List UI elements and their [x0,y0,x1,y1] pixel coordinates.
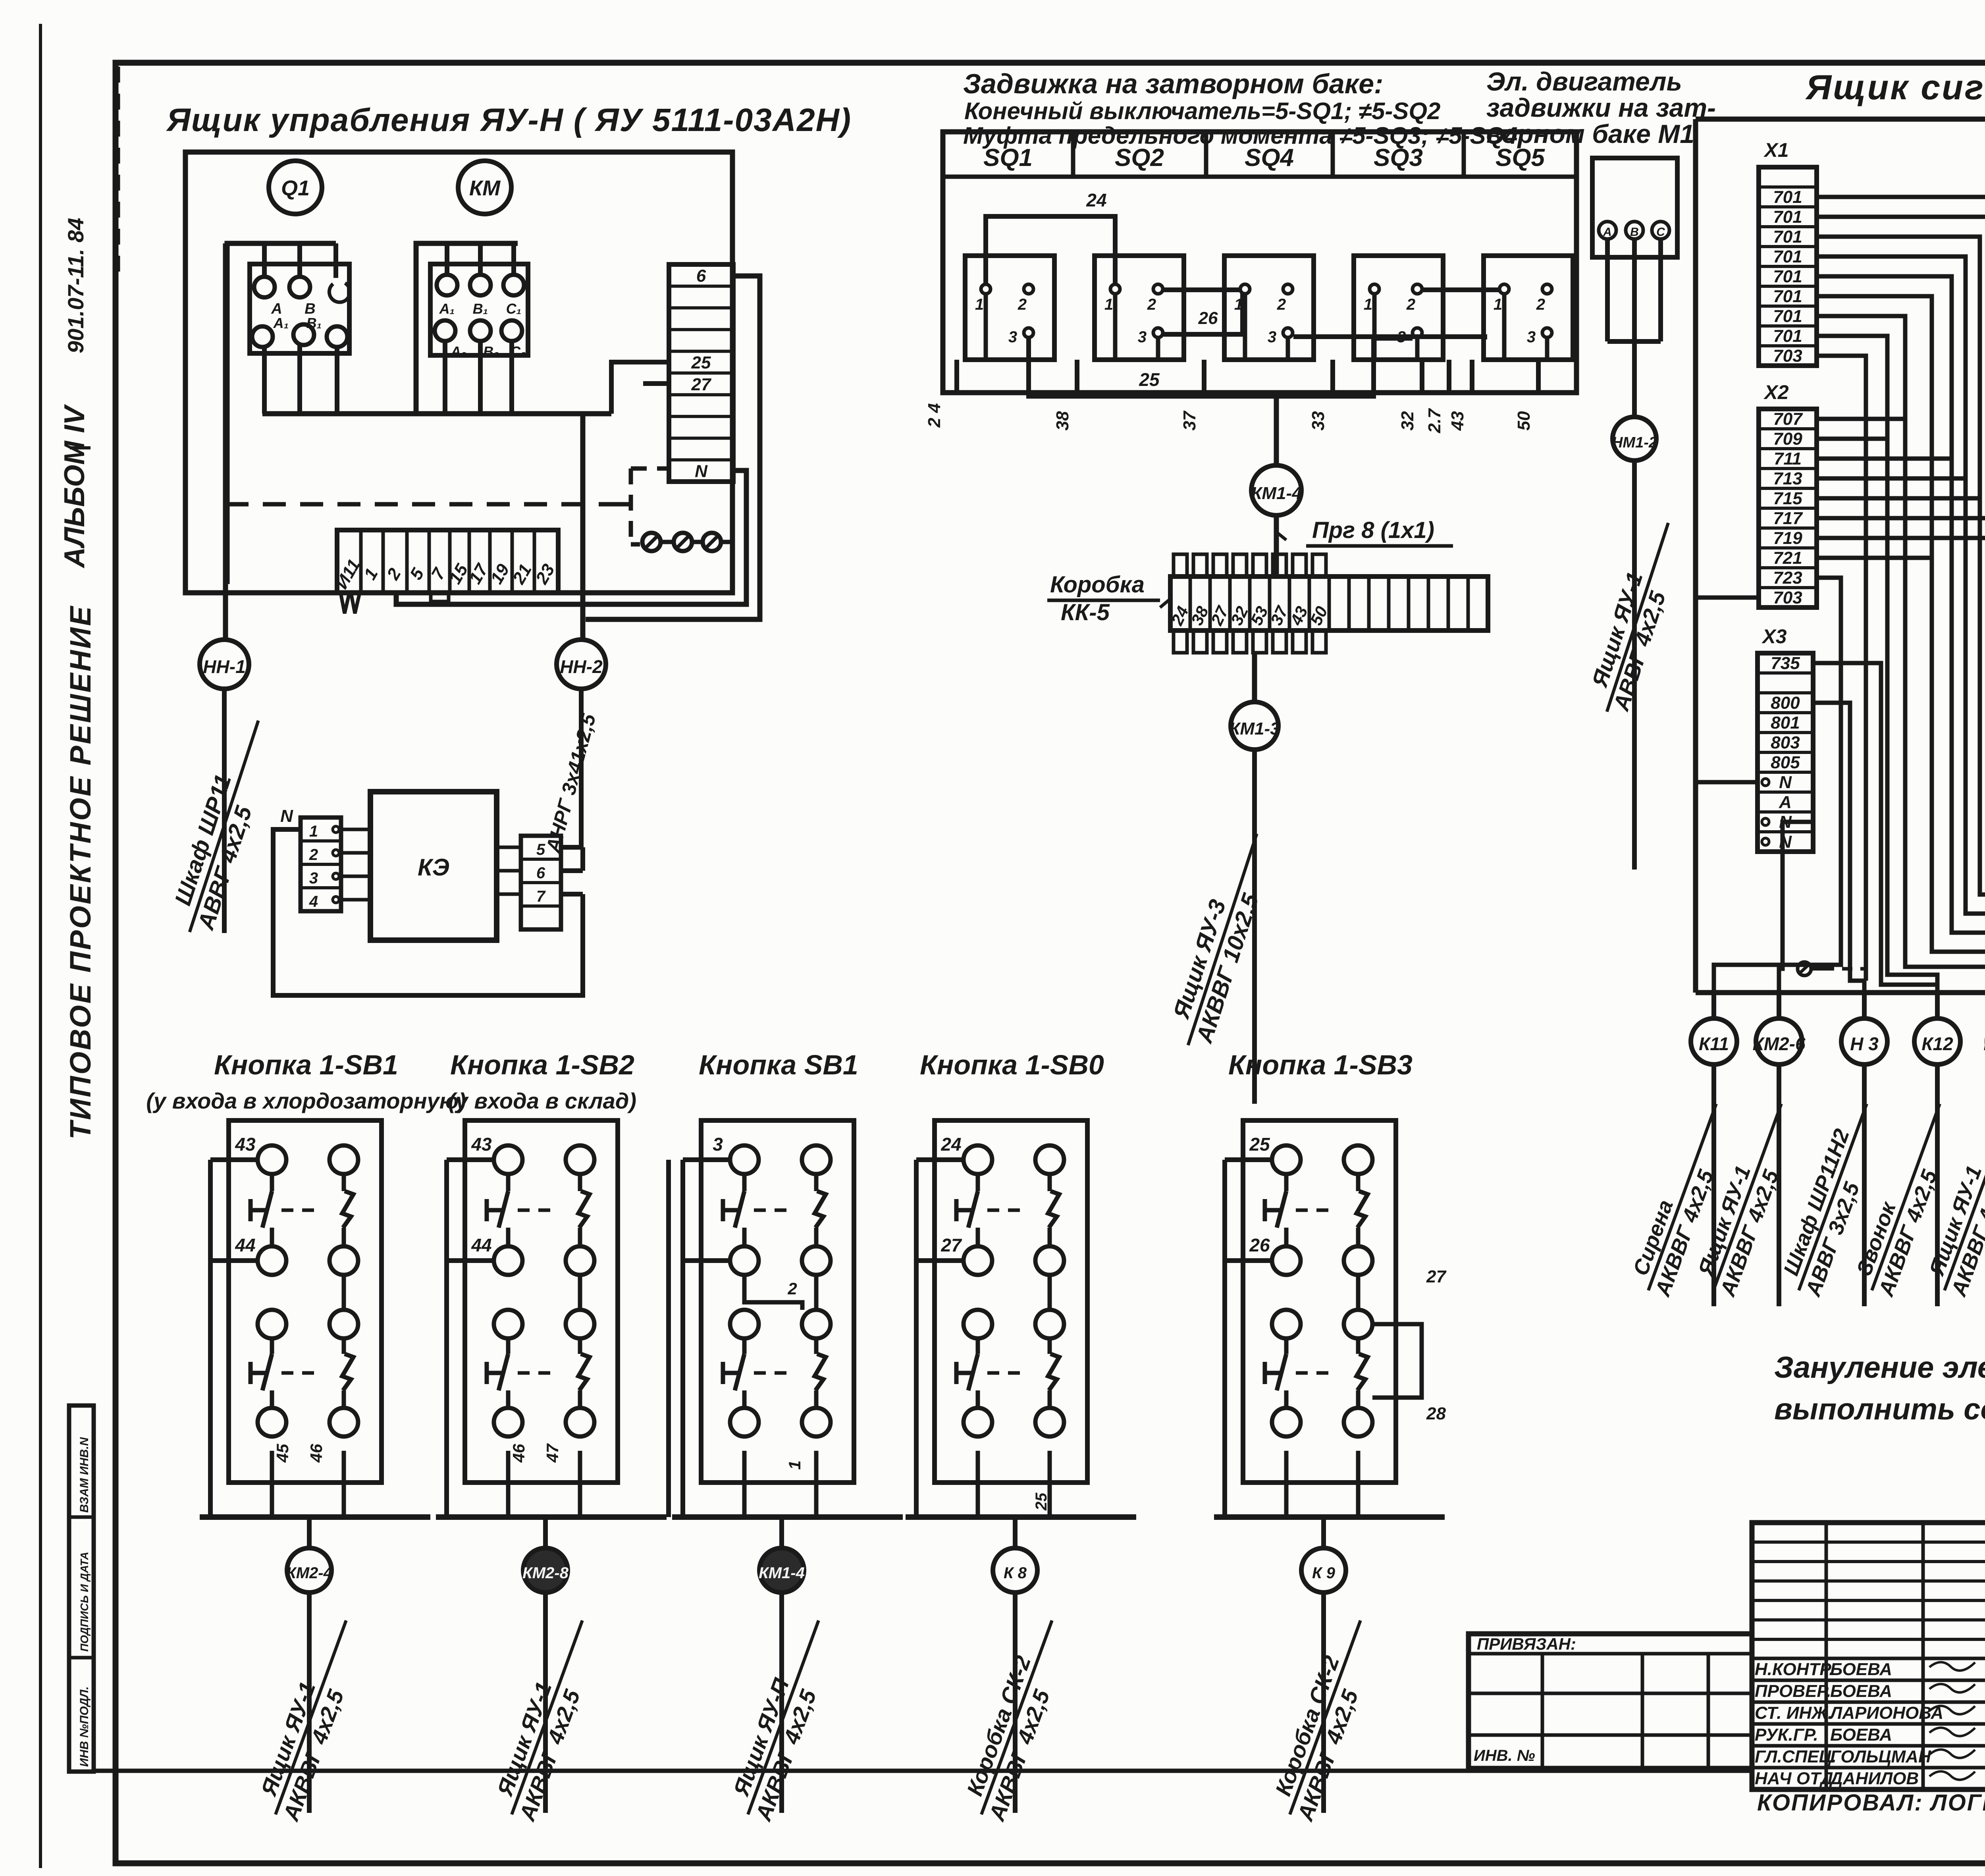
device circle &#1050; 9 [1321,1517,1326,1548]
button left feeder [210,1157,258,1162]
button bus [436,1514,667,1520]
SQ1 contact 2 [1024,284,1033,294]
wire X2 row 8 stub [1817,556,1932,560]
svg-text:2: 2 [1018,296,1027,313]
svg-text:ПРИВЯЗАН:: ПРИВЯЗАН: [1477,1635,1576,1653]
svg-text:А₁: А₁ [273,315,289,331]
bracket under strip [431,593,449,602]
svg-text:Конечный выключатель=5-SQ1; ≠5: Конечный выключатель=5-SQ1; ≠5-SQ2 [964,98,1440,124]
svg-text:Х1: Х1 [1763,139,1788,161]
switch SQ box 5 [1484,256,1573,360]
svg-text:РУК.ГР.: РУК.ГР. [1755,1725,1818,1745]
staff table grid [1752,1523,1985,1789]
wire X1 row 5 routing [1817,256,1985,993]
svg-text:25: 25 [1249,1134,1270,1155]
wire X2 row 4 stub [1817,476,1966,481]
svg-text:803: 803 [1771,733,1800,752]
SQ5 contact 3 [1542,328,1552,337]
svg-text:К 8: К 8 [1004,1564,1027,1582]
motor terminal A [1599,222,1616,239]
wire link sq2-sq4 top [1164,287,1239,292]
svg-text:3: 3 [1008,328,1017,346]
svg-text:2: 2 [787,1279,797,1298]
wire from row6 to right [586,276,760,619]
svg-text:43: 43 [235,1134,256,1155]
button left feeder [447,1157,494,1162]
svg-text:1: 1 [1364,296,1372,313]
device circle K11 [1711,993,1716,1018]
svg-text:Эл. двигатель: Эл. двигатель [1486,67,1682,96]
wire KM1-4 to strip [1274,515,1279,576]
wire X1 703 routing [1817,356,1866,981]
button left feeder [1225,1157,1272,1162]
svg-text:24: 24 [940,1134,961,1155]
svg-text:КМ1-4: КМ1-4 [759,1564,805,1582]
KE left terminal strip [301,817,341,911]
button block &#1050;&#1085;&#1086;&#1087;&#1082;&#1072; 1-SB1 [229,1120,382,1483]
svg-text:выполнить согласно ПУЭ гл 1-7: выполнить согласно ПУЭ гл 1-7-39. [1774,1392,1985,1426]
wire X2 row 2 stub [1817,437,1887,441]
svg-text:2: 2 [1147,296,1156,313]
svg-text:Кнопка SB1: Кнопка SB1 [699,1049,858,1080]
svg-text:Ящик упрабления ЯУ-Н ( ЯУ 511: Ящик упрабления ЯУ-Н ( ЯУ 5111-03А2Н) [166,102,852,138]
button contacts upper [494,1145,522,1174]
svg-text:Коробка: Коробка [1050,572,1145,598]
svg-text:735: 735 [1771,654,1800,673]
dashed link to N row [631,467,669,471]
svg-text:2: 2 [1277,296,1286,313]
svg-text:703: 703 [1773,346,1802,366]
device circle &#1050; 8 [1013,1517,1018,1548]
svg-text:КМ2-6: КМ2-6 [1983,1033,1985,1054]
wire step 2 [744,1275,802,1310]
SQ drop wires to collector [954,360,959,393]
svg-text:38: 38 [1053,411,1072,430]
svg-text:НАЧ ОТД: НАЧ ОТД [1755,1769,1833,1788]
box YaS [1696,117,1985,122]
box YaU-N [185,152,732,593]
svg-text:701: 701 [1773,267,1802,286]
svg-text:В₁: В₁ [306,315,322,331]
cable label NN-1 [162,712,283,941]
Q1 bottom wires to bus [262,347,267,414]
svg-text:КОПИРОВАЛ: ЛОГИНОВА: КОПИРОВАЛ: ЛОГИНОВА [1757,1790,1985,1816]
wire mid long link [1293,337,1485,339]
svg-text:45: 45 [273,1444,292,1463]
wire X1 row 4 routing [1817,237,1985,993]
leader line KK-5 [1160,598,1172,607]
lamp circle 1 [642,533,661,551]
cable label NM1-2 [1580,514,1692,719]
svg-text:719: 719 [1773,528,1802,548]
svg-text:В: В [1630,226,1639,239]
KE right terminal strip [521,836,561,929]
svg-text:АЛЬБОМ IV: АЛЬБОМ IV [59,404,91,569]
dashed control bus [225,502,613,507]
cable label [1689,1095,1806,1300]
svg-text:28: 28 [1426,1404,1446,1423]
button contacts upper [258,1145,286,1174]
svg-text:24: 24 [1086,190,1106,210]
button block &#1050;&#1085;&#1086;&#1087;&#1082;&#1072; 1-SB0 [935,1120,1087,1483]
svg-text:701: 701 [1773,326,1802,346]
svg-text:2: 2 [1406,296,1415,313]
lamp connecting wire [661,540,674,544]
svg-text:701: 701 [1773,307,1802,326]
svg-text:1: 1 [975,296,984,313]
svg-text:50: 50 [1514,411,1534,430]
wire X2 row 1 stub [1817,417,1905,421]
Q1 hat bus wire [227,243,336,584]
wire from rowN loop [396,470,746,604]
wire 25 long link [1029,338,1413,396]
Q1 terminals top row [254,277,275,297]
svg-text:Кнопка 1-SB0: Кнопка 1-SB0 [920,1049,1104,1080]
svg-text:БОЕВА: БОЕВА [1830,1725,1892,1745]
cable label [250,1611,372,1824]
svg-text:701: 701 [1773,287,1802,306]
svg-text:А: А [1779,792,1792,812]
KM contact block [430,264,528,355]
button tail wire [307,1593,312,1813]
svg-text:703: 703 [1773,588,1802,607]
cable label KM1-3 [1161,825,1282,1054]
button contacts upper [1272,1145,1301,1174]
wire N to KE [273,829,583,995]
device circle &#1050;&#1052;2-4 [307,1517,312,1548]
SQ5 contact 2 [1542,284,1552,294]
button block &#1050;&#1085;&#1086;&#1087;&#1082;&#1072; 1-SB2 [465,1120,618,1483]
wire KK-5 to KM1-3 [1252,653,1257,702]
svg-text:3: 3 [309,870,318,887]
svg-text:717: 717 [1773,509,1803,528]
svg-text:ГЛ.СПЕЦ.: ГЛ.СПЕЦ. [1755,1747,1837,1766]
SQ table header line [943,175,1576,179]
svg-text:КМ1-4: КМ1-4 [1251,484,1301,503]
svg-text:3: 3 [713,1134,723,1155]
SQ2 contact 1 [1110,284,1120,294]
device NM1-2 circle [1613,417,1656,461]
button contacts lower [1272,1310,1301,1338]
svg-text:КМ2-4: КМ2-4 [286,1564,332,1582]
svg-text:НН-2: НН-2 [560,656,603,677]
svg-text:47: 47 [543,1443,562,1463]
svg-text:В₂: В₂ [483,343,499,360]
cable label [723,1611,844,1824]
svg-text:SQ5: SQ5 [1495,144,1546,172]
KK-5 teeth top [1174,554,1187,576]
svg-text:721: 721 [1773,548,1802,568]
wire X3 735 routing [1813,663,1937,985]
svg-text:26: 26 [1198,308,1218,328]
svg-text:33: 33 [1309,411,1328,431]
svg-text:SQ4: SQ4 [1245,144,1294,172]
svg-text:SQ2: SQ2 [1115,144,1164,172]
Q1 contact block [250,264,349,353]
svg-text:Задвижка на затворном баке:: Задвижка на затворном баке: [963,68,1383,99]
svg-text:44: 44 [471,1235,491,1255]
cable label [1264,1611,1386,1824]
svg-text:2: 2 [309,846,318,864]
wire H3 drop [1862,981,1867,993]
svg-text:N: N [280,806,293,826]
device KM1-4 circle [1251,465,1301,515]
svg-text:46: 46 [307,1444,326,1463]
svg-text:2: 2 [1536,296,1545,313]
svg-text:3: 3 [1527,328,1536,346]
button bus [906,1514,1136,1520]
svg-text:25: 25 [1033,1492,1050,1511]
wire X1 row 8 routing [1817,316,1985,993]
wire motor to NM1-2 [1632,341,1637,417]
svg-text:715: 715 [1773,489,1802,508]
svg-text:Кнопка 1-SB2: Кнопка 1-SB2 [450,1049,634,1080]
svg-text:Кнопка 1-SB3: Кнопка 1-SB3 [1228,1049,1413,1080]
wire NN-1 drop [223,243,228,640]
left stamp column strip [69,1406,94,1772]
svg-text:27: 27 [1426,1267,1447,1286]
svg-text:К11: К11 [1699,1033,1729,1054]
svg-text:ИНВ. №: ИНВ. № [1474,1747,1535,1764]
svg-text:С: С [1656,226,1665,239]
svg-text:К 9: К 9 [1312,1564,1336,1582]
wire X3 N stub left [1696,780,1758,785]
switch SQ box 2 [1095,256,1184,360]
bottom secondary line [94,1769,1752,1773]
button contacts upper [964,1145,992,1174]
device NN-1 circle [200,640,249,689]
X3 open terminal circles [1762,779,1769,786]
button inner wires [342,1275,346,1310]
lamp circle 2 [674,533,692,551]
svg-text:Муфта предельного момента ≠5-S: Муфта предельного момента ≠5-SQ3; ≠5-SQ4… [963,122,1524,149]
svg-text:КЭ: КЭ [418,854,449,881]
switch SQ box 4 [1354,256,1443,360]
SQ2 contact 3 [1153,328,1163,337]
wire X3 N routing to KM2-6 [1779,822,1813,993]
button tail wire [1013,1593,1018,1813]
svg-text:А₂: А₂ [450,343,466,360]
KE right stubs [497,846,521,849]
svg-text:Ящик сигнализации ЯС.: Ящик сигнализации ЯС. [1805,67,1985,107]
device circle &#1050;&#1052;1-4 [779,1517,784,1548]
svg-text:713: 713 [1773,469,1802,488]
svg-text:Н 3: Н 3 [1850,1033,1879,1054]
wire 27 row stub [643,381,669,386]
svg-text:КМ1-3: КМ1-3 [1229,719,1280,738]
button tail wire [543,1593,548,1813]
svg-text:ЛАРИОНОВА: ЛАРИОНОВА [1829,1703,1943,1723]
svg-text:701: 701 [1773,247,1802,266]
wire KM1-3 tail [1252,750,1257,1104]
device circle K12 [1935,993,1940,1018]
phase bus under Q1-KM [262,411,611,416]
svg-text:707: 707 [1773,409,1803,429]
svg-text:Х3: Х3 [1761,625,1786,648]
svg-text:(у входа в склад): (у входа в склад) [448,1088,636,1113]
button left feeder [683,1157,730,1162]
wire 24 link [986,216,1115,284]
dashed outline segment of YaU-N [116,67,120,274]
svg-text:А₁: А₁ [439,301,455,317]
KM bottom wires [443,341,447,414]
wire X2 row 6 stub [1817,516,1985,521]
motor terminal B [1626,222,1643,239]
wire X1 row 3 routing [1817,217,1985,993]
svg-text:723: 723 [1773,568,1802,588]
SQ3 contact 3 [1283,328,1293,337]
button bus [200,1514,430,1520]
SQ4 contact 1 [1370,284,1379,294]
device circle &#1050;&#1052;2-8 [543,1517,548,1548]
svg-text:В₁: В₁ [473,301,488,317]
button contacts upper [730,1145,759,1174]
svg-text:4: 4 [309,893,318,910]
motor box M1 [1592,158,1677,257]
KM terminals top row [437,275,457,295]
device NN-2 circle [557,640,606,689]
KM terminals bottom row [435,320,455,341]
SQ internal wires [984,294,988,360]
svg-text:ТИПОВОЕ ПРОЕКТНОЕ РЕШЕНИЕ: ТИПОВОЕ ПРОЕКТНОЕ РЕШЕНИЕ [64,605,97,1139]
switch SQ box 1 [965,256,1054,360]
SQ4 contact 3 [1413,328,1422,337]
svg-text:27: 27 [691,375,712,394]
earth teeth under strip [341,593,349,613]
svg-text:43: 43 [471,1134,492,1155]
bottom terminal strip I11..23 [337,530,558,593]
device KM1-3 circle [1231,702,1278,750]
svg-text:25: 25 [691,353,711,372]
svg-text:1: 1 [1494,296,1502,313]
cable label [486,1611,608,1824]
svg-text:46: 46 [509,1444,528,1463]
privyazan table [1469,1634,1752,1768]
svg-text:3: 3 [1138,328,1147,346]
svg-text:задвижки на зат-: задвижки на зат- [1486,93,1716,122]
earth phi symbol [1798,962,1811,976]
wire NN-2 tail [579,689,584,847]
KE left stubs [341,828,370,831]
SQ1 contact 3 [1024,328,1033,337]
device circle N 3 [1862,993,1867,1018]
button inner wires [578,1275,582,1310]
wire 26 link [1164,295,1243,334]
svg-text:805: 805 [1771,753,1800,772]
motor wires down [1605,239,1610,341]
device circle KM2-6 [1777,993,1781,1018]
svg-text:Прг 8 (1х1): Прг 8 (1х1) [1312,517,1434,543]
svg-text:СТ. ИНЖ.: СТ. ИНЖ. [1755,1703,1833,1723]
wire NM1-2 tail [1632,461,1637,870]
svg-text:27: 27 [940,1235,962,1255]
wire right exits [1372,1324,1422,1398]
cable label [956,1611,1078,1824]
svg-text:26: 26 [1249,1235,1270,1255]
motor terminal C [1652,222,1669,239]
svg-text:(у входа в хлордозаторную): (у входа в хлордозаторную) [146,1088,466,1113]
button contacts lower [730,1310,759,1338]
wire link sq3-sq5 top [1423,287,1499,292]
KM feeder stubs [445,243,449,275]
KM hat bus wire [416,243,518,414]
svg-text:43: 43 [1448,411,1467,431]
wire double feeder [666,1160,671,1517]
svg-text:ДАНИЛОВ: ДАНИЛОВ [1829,1769,1919,1788]
svg-text:НН-1: НН-1 [203,656,245,677]
button tail wire [779,1593,784,1813]
cable label [1920,1095,1985,1300]
svg-text:6: 6 [536,864,545,882]
svg-text:709: 709 [1773,429,1802,449]
svg-text:2.7: 2.7 [1425,408,1444,434]
svg-text:А: А [1603,226,1612,239]
device KM circle [458,161,511,214]
KK-5 teeth bottom [1174,630,1187,653]
svg-text:711: 711 [1774,449,1802,469]
wire X2 703 stub left [1696,596,1759,600]
svg-text:800: 800 [1771,693,1800,713]
svg-text:НМ1-2: НМ1-2 [1612,434,1657,451]
wire NN-2 to KE row5 [561,845,583,850]
wire collector drop to KM1-4 [1274,393,1279,465]
svg-text:Н.КОНТР.: Н.КОНТР. [1755,1660,1834,1679]
wire X2 row 3 stub [1817,457,1952,461]
svg-text:К12: К12 [1921,1033,1953,1054]
svg-text:N: N [1779,773,1792,792]
svg-text:901.07-11. 84: 901.07-11. 84 [63,218,88,353]
svg-text:701: 701 [1773,227,1802,247]
switch SQ box 3 [1224,256,1314,360]
terminal strip 6-25-27-N [669,264,733,482]
wire X1 row 6 routing [1817,276,1985,993]
button block &#1050;&#1085;&#1086;&#1087;&#1082;&#1072; 1-SB3 [1243,1120,1396,1483]
button inner wires [1356,1275,1361,1310]
button left feeder [916,1157,964,1162]
svg-text:SQ1: SQ1 [983,144,1033,172]
svg-text:801: 801 [1771,713,1800,733]
wire 25 row stub [611,362,669,414]
svg-text:КМ2-6: КМ2-6 [1752,1033,1805,1054]
svg-text:5: 5 [536,841,545,858]
svg-text:С₁: С₁ [506,301,522,317]
button bus [672,1514,903,1520]
SQ4 contact 2 [1413,284,1422,294]
svg-text:КК-5: КК-5 [1061,600,1110,625]
svg-text:25: 25 [1139,369,1160,390]
svg-text:1: 1 [309,823,318,840]
svg-text:3: 3 [1268,328,1276,346]
svg-text:2 4: 2 4 [925,403,944,428]
SQ3 contact 1 [1240,284,1250,294]
wire X1 row 9 routing [1817,336,1937,993]
svg-text:ВЗАМ ИНВ.N: ВЗАМ ИНВ.N [78,1437,91,1513]
button inner wires [1048,1275,1052,1310]
SQ5 contact 1 [1499,284,1509,294]
svg-text:6: 6 [696,266,706,285]
button contacts lower [494,1310,522,1338]
svg-text:1: 1 [1104,296,1113,313]
svg-text:701: 701 [1773,207,1802,227]
button inner wires [814,1275,819,1310]
terminal strip KK-5 [1170,576,1488,630]
SQ table column dividers [1071,132,1075,177]
svg-text:7: 7 [536,888,546,905]
wire X2 row 5 stub [1817,496,1980,501]
svg-text:КМ2-8: КМ2-8 [522,1564,569,1582]
wire bus down to NN-2 [580,414,586,640]
Q1 terminals bottom row [252,326,273,347]
